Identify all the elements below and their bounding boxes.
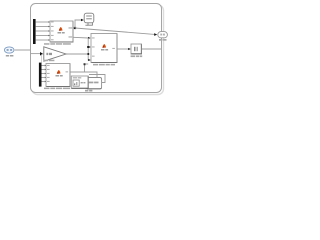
- label G1: [44, 60, 55, 62]
- node J5: [84, 63, 86, 65]
- wire stub to U3 in3: [88, 59, 91, 61]
- frame shadow: [32, 5, 164, 95]
- icon U1 (orange logo): [59, 27, 63, 31]
- block U4: [131, 44, 142, 54]
- wire mux M2 to U2 in1: [42, 65, 45, 67]
- icon U3 (orange logo): [102, 44, 106, 48]
- pin labels U1 outputs: [69, 27, 73, 37]
- wire frame to gain G1 input: [31, 53, 41, 55]
- subsystem block U2: [46, 64, 70, 87]
- pin label U3 output: [112, 48, 115, 49]
- value label G1 (PID): [46, 53, 52, 55]
- wire U2 out to B2: [70, 72, 97, 77]
- node source V1 (oval): [4, 47, 14, 53]
- wire mux M1 to U1 in2: [36, 26, 48, 28]
- label U2: [44, 88, 70, 90]
- wire bus vertical: [87, 38, 89, 60]
- wire J4 down to mux M2: [40, 55, 42, 63]
- node J4: [40, 52, 43, 56]
- label B2: [85, 90, 92, 92]
- pin labels U3 inputs: [92, 37, 95, 56]
- subsystem block U1: [50, 21, 73, 42]
- wire junction to out port (diagonal): [75, 28, 155, 34]
- wire mux M2 to U2 in5: [42, 81, 45, 83]
- pin labels U1 inputs: [51, 21, 54, 40]
- label P1: [159, 39, 167, 41]
- wire mux M2 to U2 in3: [42, 73, 45, 75]
- mux M1: [33, 19, 36, 44]
- wire U4 out to frame: [142, 48, 161, 50]
- wire mux M1 to U1 in5: [36, 39, 48, 41]
- subsystem block U3: [91, 34, 117, 63]
- scope SC1: [84, 13, 94, 25]
- value label U1 icon text: [58, 32, 65, 34]
- wire mux M2 to U2 in4: [42, 77, 45, 79]
- wire junction to scope: [75, 20, 82, 28]
- block B1 (viewer): [71, 76, 88, 88]
- label U4: [131, 55, 143, 57]
- block B2 (signal spec): [86, 78, 101, 89]
- wire B2 out loop: [89, 75, 105, 83]
- wire mux M1 to U1 in1: [36, 21, 48, 23]
- wire stub to U3 in2: [87, 46, 90, 48]
- value label U3 icon text: [101, 49, 108, 51]
- value label for V1: [6, 55, 14, 57]
- wire mux M2 to U2 in2: [42, 69, 45, 71]
- wire mux M1 to U1 in4: [36, 35, 48, 37]
- icon U2 (orange logo): [57, 70, 61, 74]
- pin labels U2 inputs: [47, 65, 50, 82]
- wire J5 stub: [85, 63, 89, 65]
- node J3: [87, 53, 89, 55]
- wire gain G1 output: [66, 53, 88, 55]
- value label U2 icon text: [56, 75, 63, 77]
- label U3: [93, 64, 115, 66]
- wire mux M1 to U1 in3: [36, 30, 48, 32]
- pin label U2 output: [66, 71, 69, 72]
- node J1: [74, 27, 76, 29]
- label U1: [44, 43, 71, 45]
- wire U1 out2 to U3 in1: [73, 36, 88, 39]
- outport P1 (capsule): [158, 32, 168, 38]
- subsystem frame: [31, 4, 162, 93]
- wire U1 out1 to junction: [73, 27, 76, 29]
- gain G1 (triangle): [44, 47, 66, 61]
- node J2: [87, 46, 89, 48]
- wire V1 to frame: [15, 49, 31, 51]
- mux M2: [39, 63, 42, 87]
- wire branch up: [84, 64, 86, 72]
- wire J4 to G1: [43, 53, 45, 55]
- wire U3 out to U4: [117, 48, 129, 50]
